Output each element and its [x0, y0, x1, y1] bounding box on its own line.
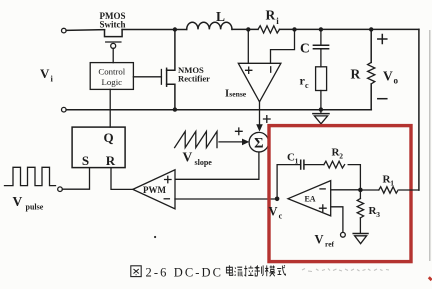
watermark speck — [154, 236, 156, 238]
svg-text:c: c — [305, 81, 309, 90]
caption char liu — [235, 267, 243, 276]
svg-text:EA: EA — [304, 195, 315, 204]
op-amp EA triangle — [288, 181, 331, 216]
wire PWM output to R input — [111, 168, 133, 190]
svg-text:2: 2 — [339, 152, 343, 161]
svg-text:R: R — [266, 8, 276, 23]
wire EA - input — [331, 189, 361, 191]
highlight red box — [269, 126, 411, 262]
wire Isense - input — [271, 31, 295, 63]
pin - of PWM — [164, 198, 169, 200]
svg-text:R: R — [351, 67, 361, 82]
label - of Vo — [378, 98, 387, 100]
caption figure number — [131, 265, 286, 279]
control logic box U1 — [90, 63, 133, 90]
wire Isense output — [259, 102, 261, 127]
pin + of EA — [320, 205, 327, 212]
arrow into summer left — [242, 139, 249, 146]
svg-text:o: o — [394, 76, 399, 86]
svg-text:Σ: Σ — [254, 136, 263, 152]
node: switching node dot — [173, 27, 177, 31]
capacitor C1 — [301, 160, 304, 169]
wire top rail left segment — [66, 29, 104, 32]
label NMOS Rectifier — [178, 65, 210, 84]
caption char kong — [244, 266, 253, 276]
node: R load top dot — [369, 27, 373, 31]
pin + of Isense — [246, 67, 252, 73]
wire slope arrow to summer — [219, 141, 243, 143]
node: Ri right dot — [292, 27, 296, 31]
caption char tu — [131, 266, 141, 277]
label R3 — [369, 205, 381, 219]
watermark red dash — [429, 277, 432, 280]
pin - of Isense — [270, 67, 272, 72]
label + of Vo — [378, 35, 387, 44]
label Ri — [266, 8, 280, 26]
label Vpulse — [13, 194, 44, 211]
input terminal bottom (Vi-) — [62, 107, 67, 112]
node: C branch dot — [319, 27, 323, 31]
svg-text:pulse: pulse — [26, 202, 44, 211]
label Vref — [315, 233, 335, 249]
wire Vo feedback (right vertical) — [418, 29, 420, 190]
svg-text:2-6 DC-DC: 2-6 DC-DC — [146, 266, 224, 280]
svg-text:sense: sense — [229, 90, 247, 99]
caption char shi — [277, 265, 285, 275]
wire EA + input to Vref — [331, 207, 343, 233]
svg-text:Switch: Switch — [99, 20, 125, 30]
capacitor C — [313, 31, 328, 67]
wire PWM - input to Vc — [175, 198, 277, 200]
svg-text:Q: Q — [103, 130, 113, 145]
label Vi — [40, 66, 54, 84]
svg-text:V: V — [383, 69, 393, 84]
pulse waveform Vpulse — [5, 167, 56, 185]
svg-text:ref: ref — [325, 240, 335, 249]
transistor PMOS switch symbol — [105, 30, 123, 63]
caption char mo — [265, 265, 275, 276]
wire Vc to C1 — [277, 165, 300, 199]
label PMOS Switch — [99, 11, 125, 30]
wire top rail middle segment — [122, 29, 187, 31]
wire control logic to NMOS gate — [133, 76, 161, 78]
watermark scribble — [302, 269, 389, 272]
svg-text:V: V — [269, 205, 278, 219]
ground of R3 — [353, 234, 368, 244]
inductor L — [187, 22, 232, 29]
svg-text:Logic: Logic — [102, 77, 123, 87]
label Vc — [269, 205, 283, 221]
node Vc dot — [275, 197, 280, 202]
label Isense — [225, 89, 247, 100]
label C1 — [287, 152, 299, 166]
label R1 — [383, 174, 395, 188]
svg-text:L: L — [216, 9, 225, 24]
resistor R1 — [360, 187, 419, 193]
svg-text:PWM: PWM — [143, 185, 166, 195]
wire S input — [62, 168, 89, 190]
summing junction — [249, 132, 269, 152]
pin + summer left — [236, 128, 243, 135]
caption char zhi — [255, 265, 264, 276]
slope waveform Vslope — [175, 131, 217, 147]
svg-text:V: V — [13, 194, 23, 209]
wire top rail to Ri — [232, 28, 258, 30]
label Vo — [383, 69, 399, 86]
input terminal Vpulse — [58, 187, 63, 192]
resistor Ri — [258, 26, 279, 33]
arrow into summer top — [256, 124, 263, 131]
svg-text:i: i — [276, 16, 279, 26]
wire C1 to R2 — [304, 164, 324, 166]
node: Ri left dot — [246, 27, 250, 31]
wire control logic to latch — [109, 89, 111, 127]
latch box (SR) — [72, 127, 125, 168]
svg-text:Rectifier: Rectifier — [178, 74, 210, 84]
wire Isense + input — [247, 31, 249, 63]
transistor NMOS rectifier — [161, 32, 175, 108]
pin + summer top — [264, 116, 271, 123]
page edge line — [429, 30, 431, 261]
svg-text:1: 1 — [295, 157, 299, 166]
svg-text:R: R — [106, 153, 116, 168]
label Control Logic — [98, 66, 125, 87]
label Vslope — [183, 150, 213, 167]
label rc — [300, 74, 310, 91]
svg-text:slope: slope — [195, 158, 213, 167]
svg-text:V: V — [183, 150, 193, 165]
svg-text:S: S — [82, 153, 89, 168]
op-amp Isense triangle — [238, 63, 281, 102]
svg-text:i: i — [51, 74, 54, 84]
wire rc to rail — [320, 91, 322, 108]
ground output rail — [313, 110, 329, 124]
svg-text:c: c — [279, 212, 283, 221]
wire summer to PWM + input — [176, 152, 259, 179]
label R2 — [332, 147, 344, 161]
comparator PWM triangle — [133, 170, 175, 209]
wire R2 down to inverting node — [348, 165, 360, 190]
wire bottom rail — [66, 109, 371, 111]
svg-text:V: V — [40, 66, 50, 81]
input terminal top (Vi+) — [62, 28, 67, 33]
svg-text:V: V — [315, 233, 324, 247]
svg-text:1: 1 — [390, 179, 394, 188]
pin + of PWM — [165, 176, 171, 182]
wire top rail right segment — [280, 28, 419, 30]
svg-text:3: 3 — [376, 210, 380, 219]
svg-text:Control: Control — [98, 66, 125, 76]
node: NMOS source dot — [173, 107, 177, 111]
terminal Vref — [341, 232, 346, 237]
caption char dian — [226, 265, 232, 275]
resistor R load — [368, 31, 375, 110]
resistor rc (ESR box) — [316, 67, 327, 91]
resistor R3 — [357, 192, 363, 233]
resistor R2 — [324, 161, 345, 168]
node inverting dot — [358, 188, 363, 193]
pin - of EA — [320, 188, 325, 190]
svg-text:C: C — [300, 41, 310, 56]
node: output gnd dot — [319, 107, 323, 111]
